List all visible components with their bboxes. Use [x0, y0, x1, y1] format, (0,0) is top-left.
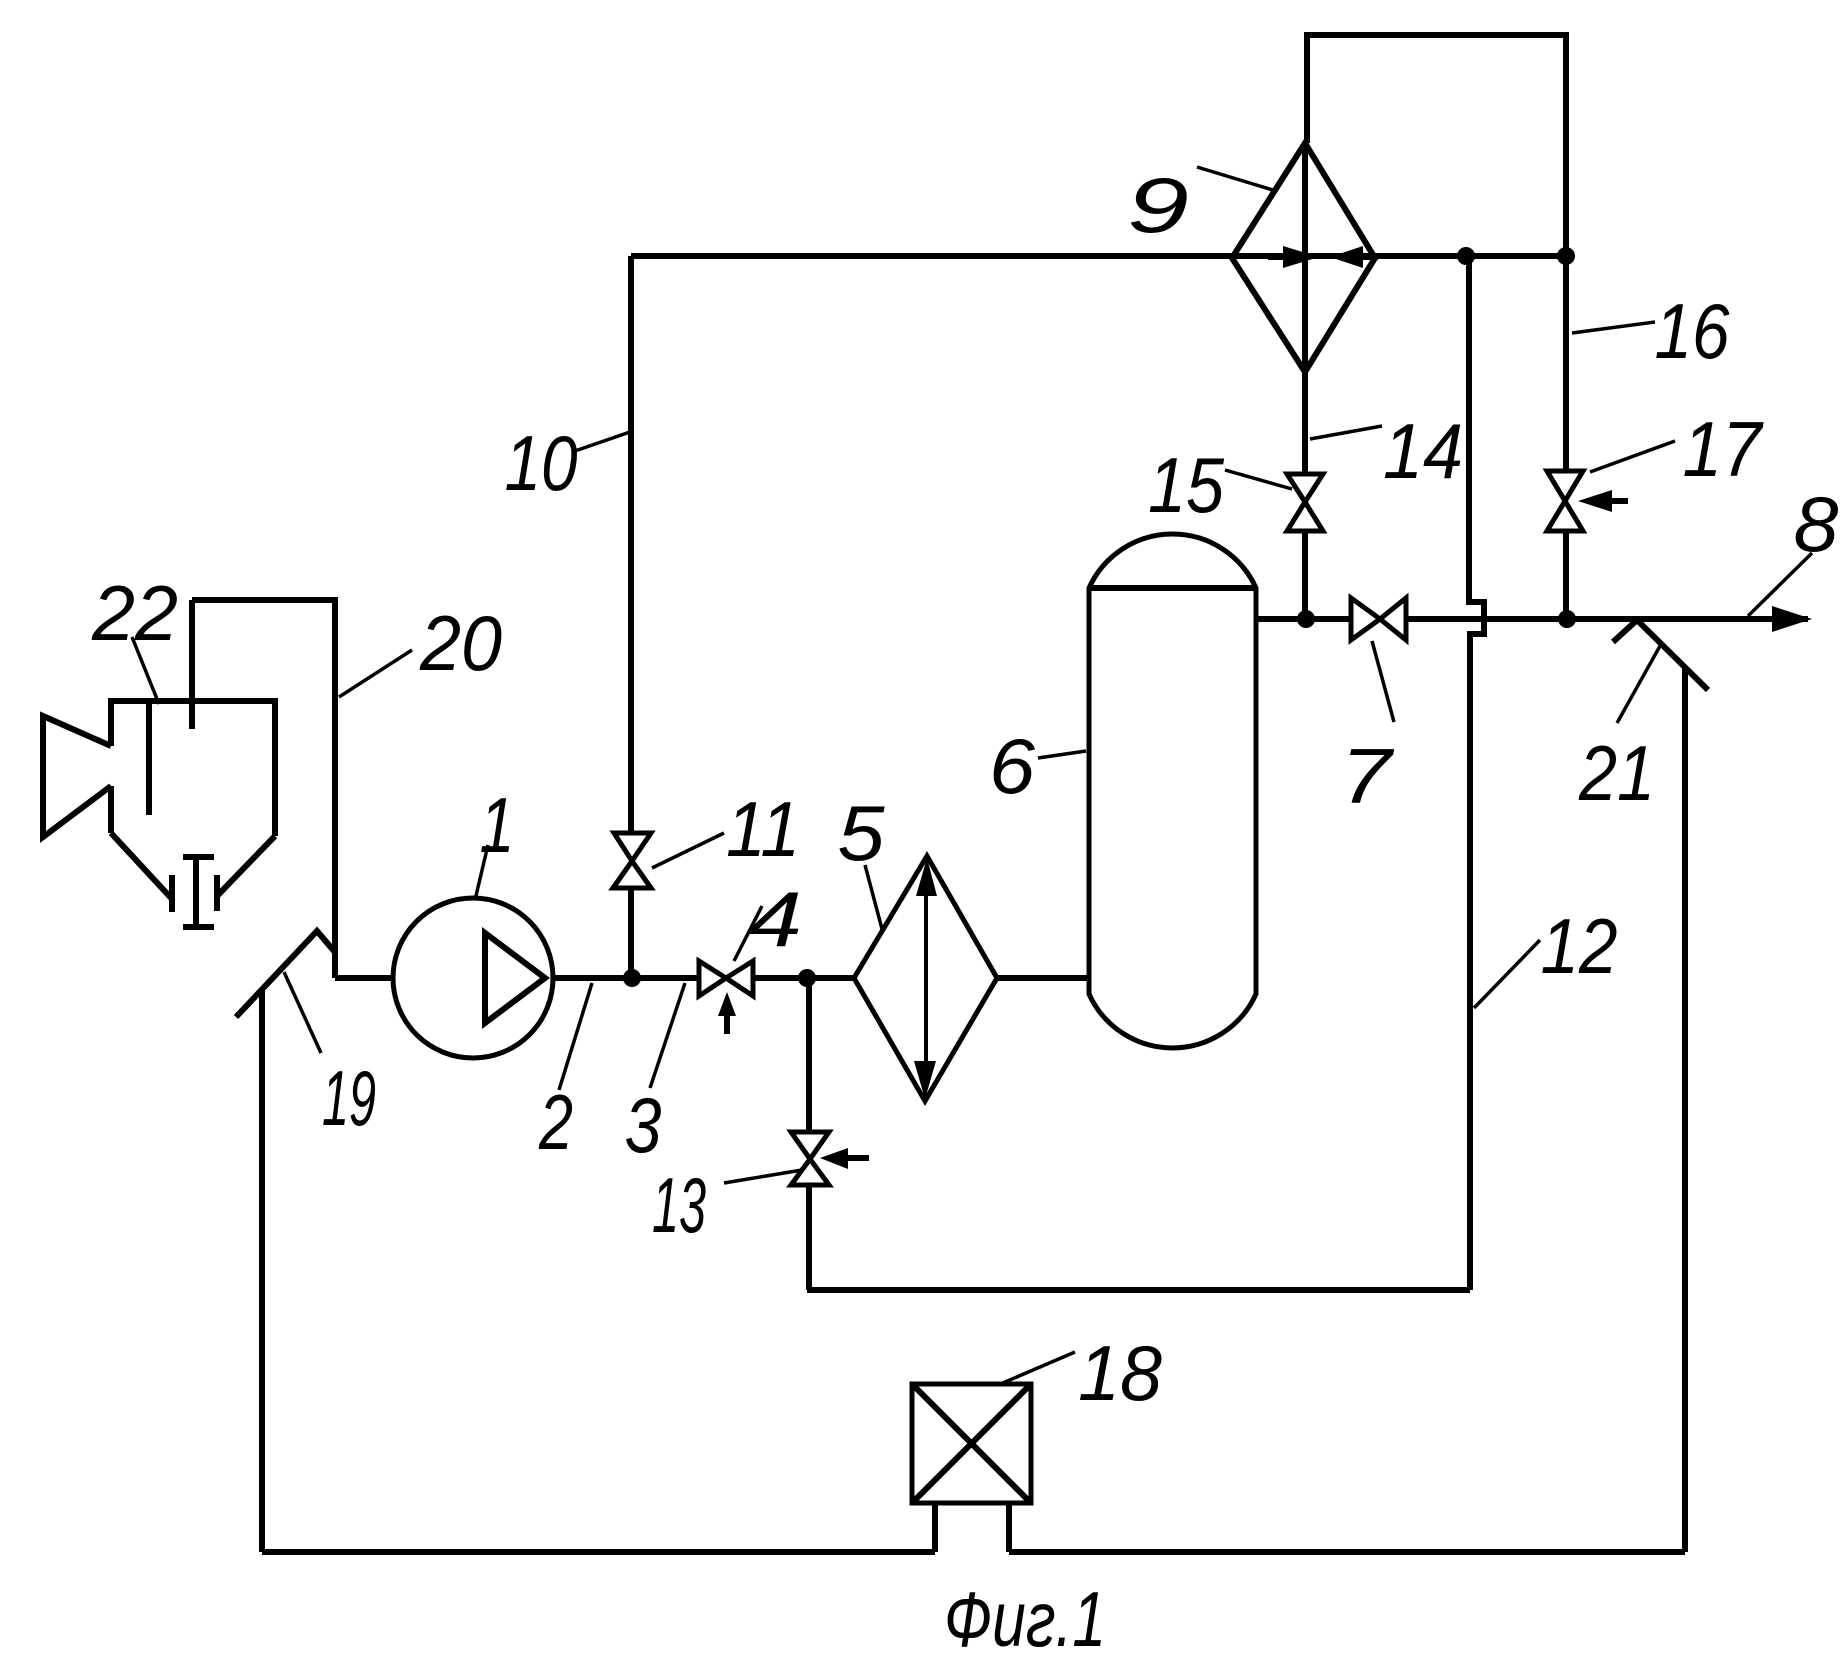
leader line for label 7 — [1372, 641, 1394, 722]
wire: left riser from break 19 down to blowdown line — [259, 989, 265, 1552]
leader line for label 17 — [1590, 441, 1675, 472]
flow arrow right-pointing inside exchanger 9 — [1268, 254, 1284, 260]
wire: pump discharge line 2/3 to valve 4 — [552, 975, 699, 981]
wire: pump suction line from corner to pump 1 — [335, 975, 395, 981]
wire: bottom blowdown line y=1552 left of mixer 18 — [262, 1549, 935, 1555]
leader line for label 1 — [475, 845, 488, 900]
svg-text:7: 7 — [1341, 732, 1395, 820]
svg-text:1: 1 — [480, 781, 515, 869]
node: junction dot line 14 / outlet header — [1297, 610, 1315, 628]
leader line for label 18 — [998, 1352, 1075, 1385]
node: junction dot branch to valve 13 — [798, 969, 816, 987]
valve 4 (gate valve with actuator arrow on discharge line) — [699, 961, 726, 996]
svg-text:12: 12 — [1541, 902, 1618, 990]
svg-text:16: 16 — [1655, 287, 1731, 375]
wire: line 16 below junction, through valve 17, to outlet header — [1563, 256, 1569, 619]
vertical double-headed arrow inside filter 5 — [924, 884, 928, 1072]
wire: line 14 below valve 15 to header y=619 — [1302, 531, 1308, 619]
separator 22 funnel outlet hooks — [172, 875, 217, 912]
svg-text:8: 8 — [1794, 480, 1839, 568]
svg-text:3: 3 — [625, 1081, 662, 1169]
mixer 18 (box with cross) — [912, 1384, 1031, 1503]
filter 5 (diamond with vertical double arrow) — [854, 856, 997, 1101]
svg-text:21: 21 — [1578, 729, 1655, 817]
wire: line 12 vertical with crossing jog over outlet header — [1469, 256, 1484, 1290]
svg-text:17: 17 — [1683, 405, 1764, 493]
valve 7 (gate valve on outlet header) — [1351, 598, 1380, 640]
leader line for label 9 — [1197, 167, 1273, 190]
svg-text:15: 15 — [1148, 441, 1225, 529]
separator 22 body — [111, 701, 275, 836]
node: junction dot line 16 / upper header — [1557, 247, 1575, 265]
svg-text:9: 9 — [1127, 161, 1189, 249]
svg-text:2: 2 — [538, 1078, 573, 1166]
wire: line 10 vertical (lower segment below valve 11) — [628, 888, 634, 978]
svg-text:Фиг.1: Фиг.1 — [944, 1575, 1106, 1656]
leader line for label 15 — [1225, 470, 1292, 489]
control arrow into valve 17 — [1608, 498, 1628, 504]
svg-text:14: 14 — [1383, 407, 1463, 495]
leader line for label 3 — [650, 983, 685, 1088]
svg-text:6: 6 — [989, 722, 1036, 810]
valve 11 (hourglass on line 10) — [614, 833, 651, 861]
wire: branch from node at pump discharge down to valve 13 — [806, 978, 812, 1290]
separator 22 horn inlet — [43, 716, 111, 837]
leader line for label 12 — [1474, 940, 1540, 1008]
separator 22 funnel bottom — [111, 833, 275, 899]
node: junction dot line 16 / outlet header — [1558, 610, 1576, 628]
heat exchanger 9 (diamond) — [1232, 143, 1375, 372]
leader line for label 8 — [1748, 553, 1812, 616]
wire: pipe from valve 4 to filter 5 — [753, 975, 855, 981]
flow arrow left-pointing inside exchanger 9 — [1360, 254, 1378, 260]
svg-text:4: 4 — [748, 875, 802, 963]
node: junction dot pump discharge / line 10 — [623, 969, 641, 987]
wire: bottom return line y=1290 from line 12 to valve 13 branch — [807, 1287, 1470, 1293]
leader line for label 6 — [1038, 751, 1086, 758]
valve 15 (hourglass on line 14) — [1287, 474, 1323, 502]
wire: top loop pipe (rectangle over exchanger 9) — [1307, 35, 1566, 256]
valve 13 (hourglass on branch line) — [791, 1132, 829, 1159]
separator 22 outlet I-mark — [183, 857, 214, 927]
svg-text:18: 18 — [1078, 1329, 1162, 1417]
svg-text:22: 22 — [91, 569, 178, 657]
leader line for label 20 — [339, 650, 412, 697]
svg-text:10: 10 — [505, 419, 578, 507]
pump 1 (circle with triangle) — [393, 898, 553, 1058]
wire: vertical line through exchanger 9 down to valve 15 (line 14) — [1302, 143, 1308, 474]
leader line for label 4 — [734, 906, 762, 961]
leader line for label 14 — [1310, 426, 1382, 439]
leader line for label 2 — [559, 983, 592, 1090]
separator 22 internal dip tube — [146, 704, 152, 815]
wire: upper header line y=256 from line 10 corner to line 16 — [631, 253, 1566, 259]
svg-text:19: 19 — [322, 1054, 376, 1142]
leader line for label 13 — [724, 1170, 802, 1183]
leader line for label 16 — [1572, 322, 1655, 333]
control arrow into valve 13 — [846, 1155, 869, 1161]
wire: line 10 vertical (upper segment above valve 11) — [628, 256, 634, 833]
svg-text:20: 20 — [419, 599, 502, 687]
break symbol 21 at discharge arrow — [1613, 620, 1708, 690]
leader line for label 11 — [652, 833, 724, 868]
wire: right riser from break 21 down to blowdown line — [1682, 667, 1688, 1552]
node: junction dot line 12 / upper header — [1457, 247, 1475, 265]
leader line for label 21 — [1617, 646, 1660, 723]
leader line for label 19 — [284, 972, 321, 1053]
svg-text:5: 5 — [838, 789, 886, 877]
leader line for label 5 — [865, 865, 882, 929]
arrowhead of outlet 8 — [1772, 606, 1812, 632]
vessel 6 (column with domed ends) — [1089, 534, 1256, 1048]
mixer 18 legs — [935, 1503, 1009, 1552]
break symbol 19 at pump suction — [236, 931, 334, 1017]
wire: line 20 from separator 22 to pump suction — [192, 600, 335, 978]
actuator stem arrow of valve 4 — [724, 1010, 730, 1034]
wire: vessel 6 outlet header y=619 with discharge arrow 8 — [1256, 616, 1808, 622]
leader line for label 10 — [572, 432, 630, 452]
valve 17 (hourglass on line 16) — [1547, 471, 1583, 501]
wire: pipe from filter 5 to vessel 6 — [996, 975, 1090, 981]
svg-text:13: 13 — [652, 1161, 706, 1249]
svg-text:11: 11 — [726, 785, 800, 873]
leader line for label 22 — [132, 637, 159, 704]
wire: bottom blowdown line y=1552 right of mixer 18 — [1009, 1549, 1685, 1555]
